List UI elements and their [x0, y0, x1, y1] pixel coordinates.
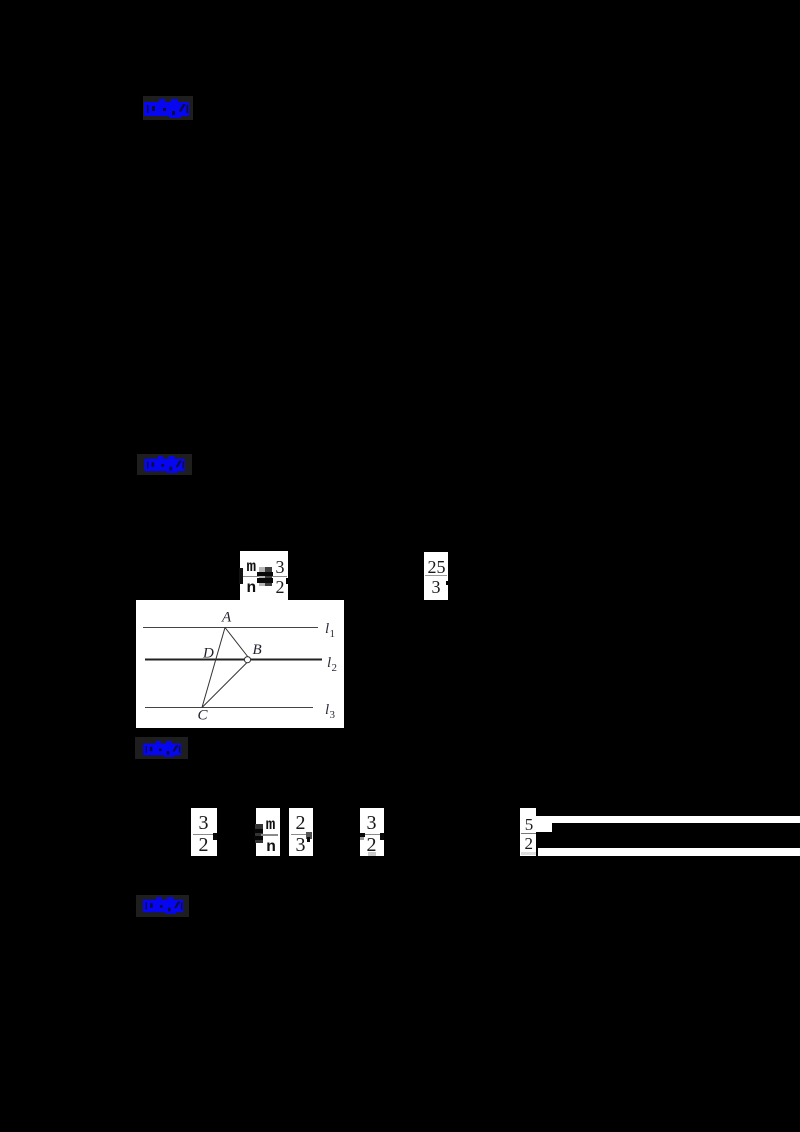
svg-text:D: D: [202, 646, 214, 662]
equation row: 3/2: [191, 808, 217, 856]
label 2: [137, 454, 192, 475]
parallel line l3: [145, 707, 313, 709]
long white bar 1: [536, 816, 800, 824]
svg-text:1: 1: [330, 628, 336, 640]
equation row: 3/2 (second): [360, 808, 384, 856]
geometry figure: [136, 600, 344, 728]
equation row: 5/2 with blank bars: [520, 808, 536, 856]
triangle side BC: [202, 660, 250, 708]
label 1: blue highlighted tag: [143, 96, 193, 120]
svg-text:B: B: [253, 642, 262, 658]
label 4: [136, 895, 189, 917]
equation row: 2/3: [289, 808, 314, 856]
long white bar 2: [538, 848, 800, 856]
equation row: m/n: [256, 808, 280, 856]
equation patch A: m/n = 3/2: [240, 551, 288, 600]
parallel line l2: [145, 659, 322, 661]
svg-text:2: 2: [332, 662, 338, 674]
parallel line l1: [143, 627, 318, 629]
label 3: [135, 737, 188, 759]
svg-text:A: A: [221, 610, 232, 626]
triangle side AB: [225, 628, 250, 660]
small circle at B: [244, 657, 250, 663]
equation patch B: 25/3: [424, 552, 448, 600]
triangle side AC through D: [202, 628, 225, 708]
svg-text:3: 3: [330, 709, 336, 721]
svg-text:C: C: [198, 708, 209, 724]
